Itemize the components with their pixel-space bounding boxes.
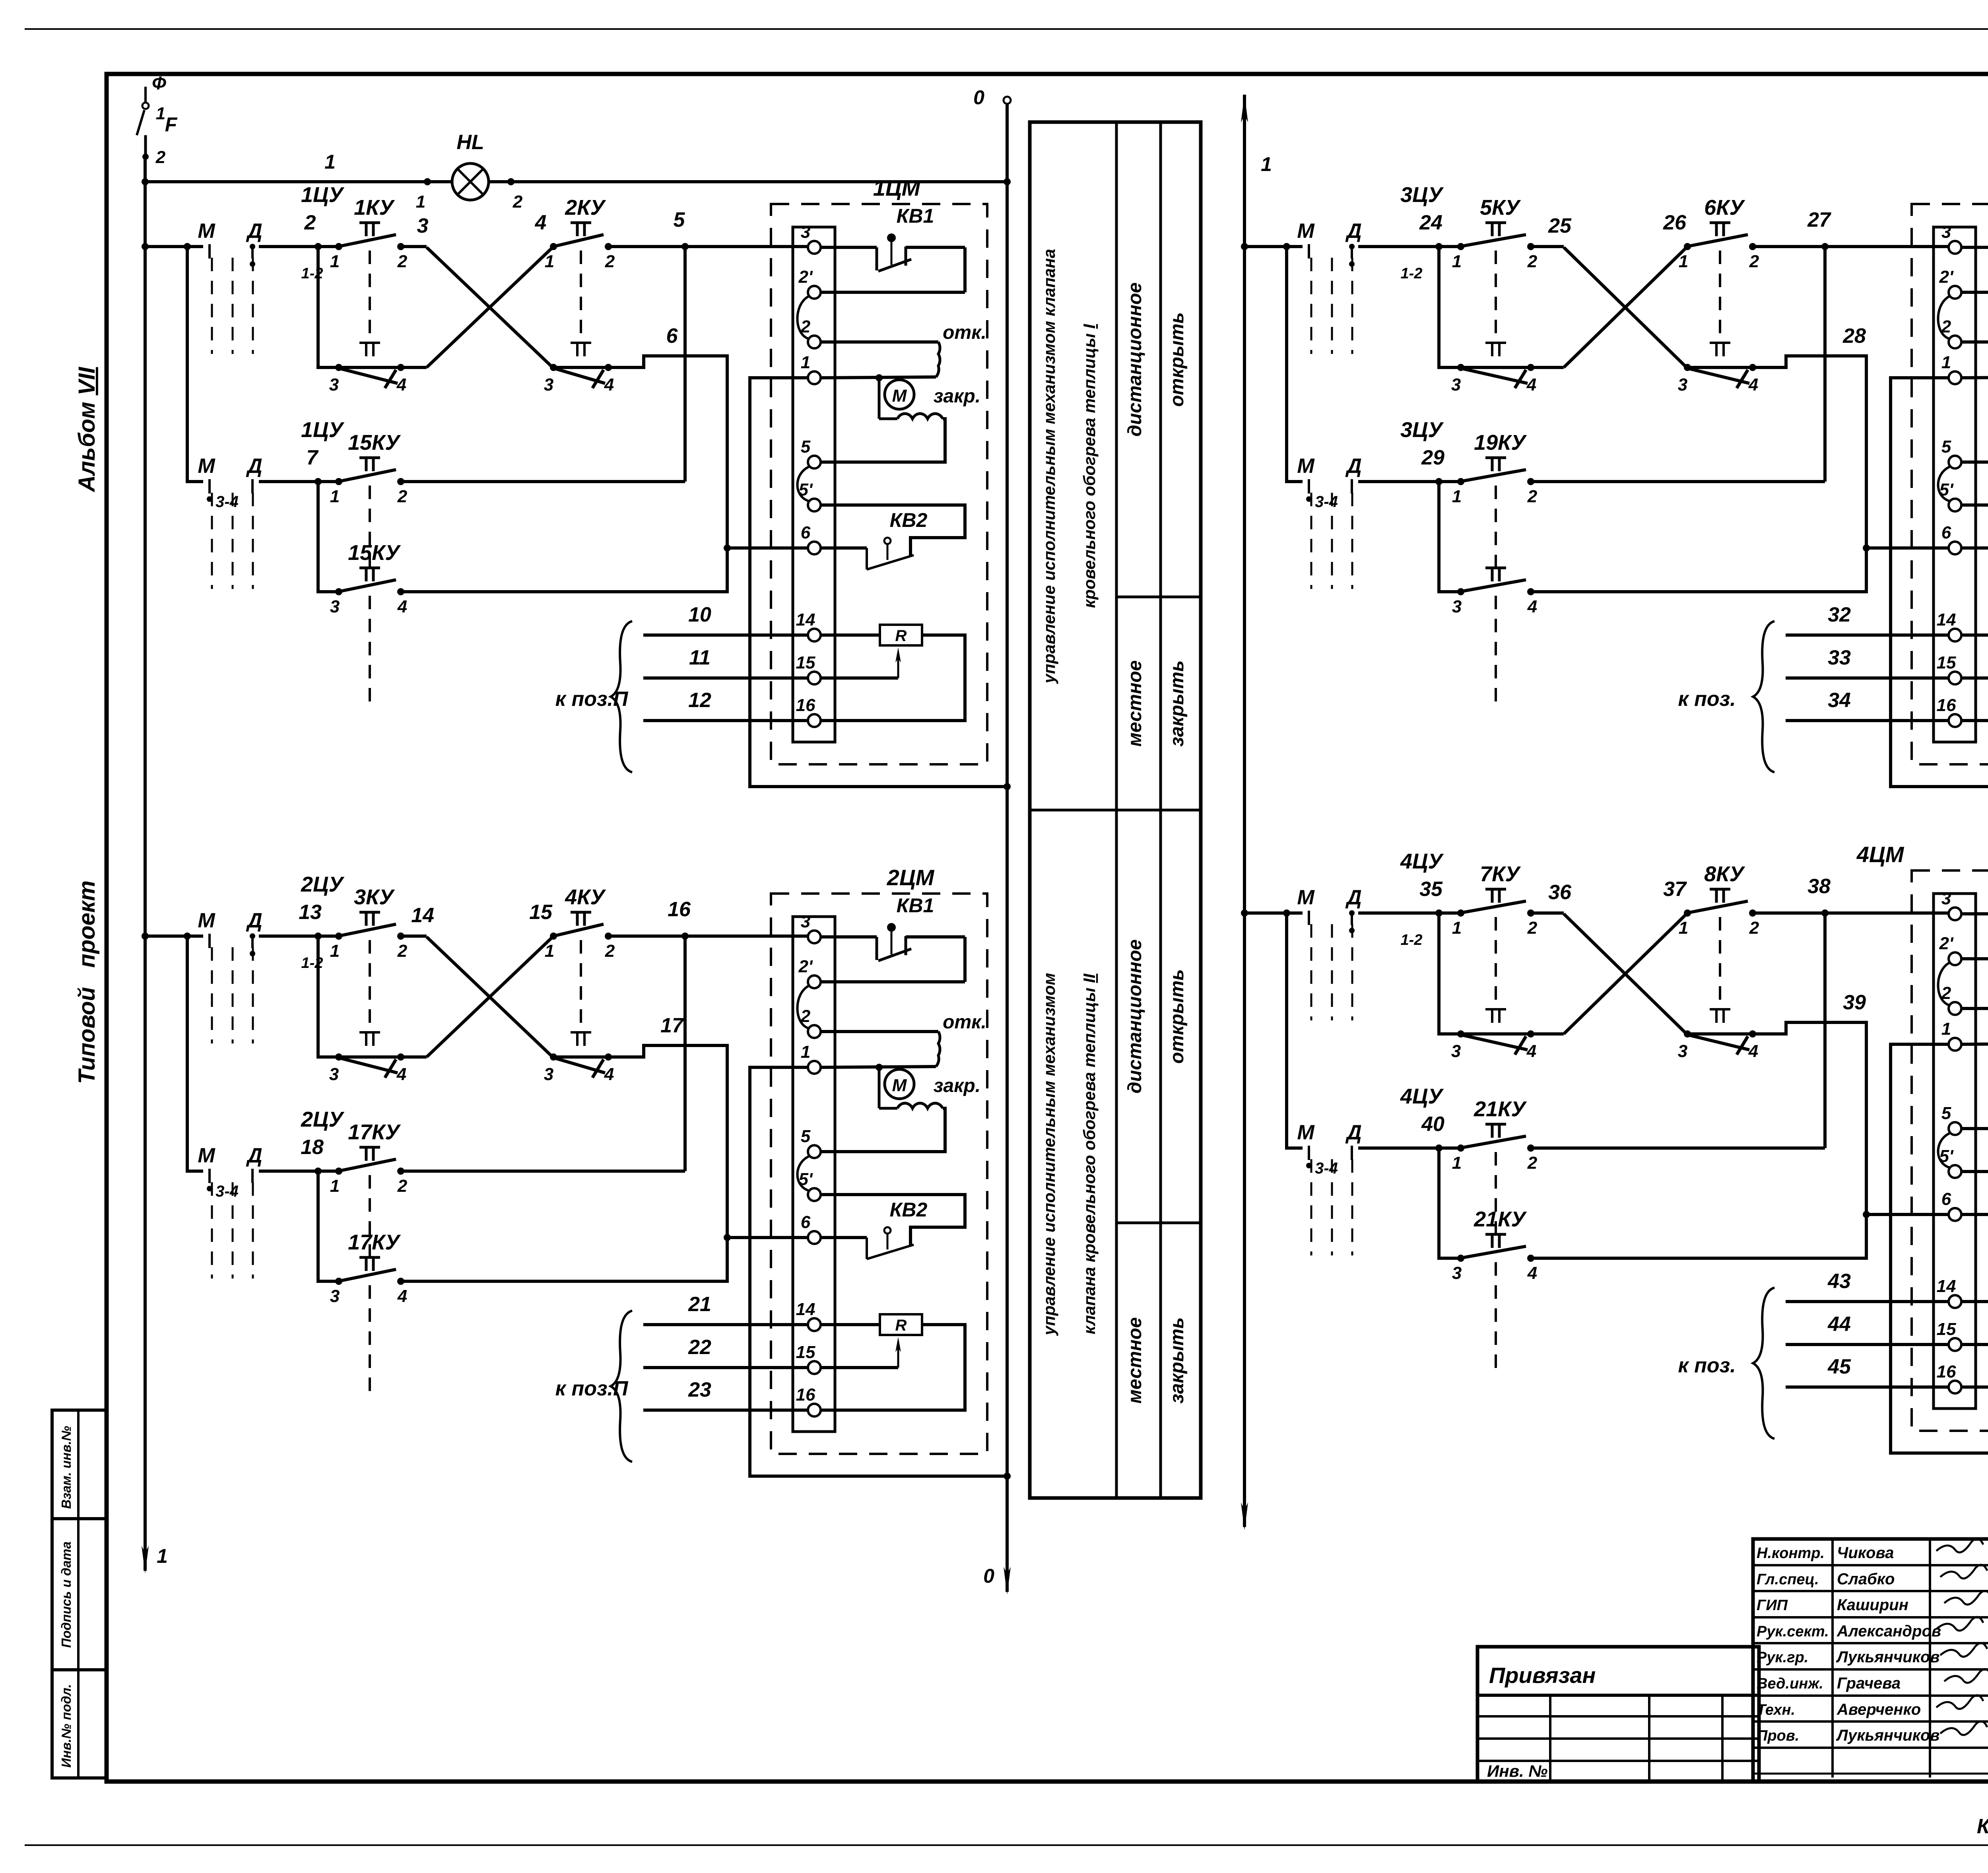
svg-text:2: 2 bbox=[397, 1176, 408, 1196]
wire row from bus to 2ЦМ terminal 3 bbox=[142, 898, 808, 940]
svg-text:Техн.: Техн. bbox=[1757, 1702, 1795, 1718]
svg-text:открыть: открыть bbox=[1167, 312, 1188, 407]
svg-text:открыть: открыть bbox=[1167, 969, 1188, 1064]
svg-text:М: М bbox=[892, 386, 907, 406]
svg-text:3: 3 bbox=[330, 1286, 340, 1306]
control switch contact KU lower bbox=[544, 343, 614, 394]
svg-text:26: 26 bbox=[1663, 211, 1687, 234]
control switch contact 6КУ upper bbox=[1679, 196, 1759, 341]
svg-text:HL: HL bbox=[456, 131, 484, 154]
wire from terminal 1 of 1ЦМ to neutral bus bbox=[750, 378, 1011, 790]
svg-text:к поз.: к поз. bbox=[1678, 688, 1736, 711]
terminal 16 of 1ЦМ bbox=[796, 696, 821, 727]
motor M of 2ЦМ bbox=[821, 1064, 980, 1108]
limit switch KB2 of 1ЦМ bbox=[821, 505, 965, 569]
terminal 16 of 4ЦМ bbox=[1937, 1362, 1961, 1393]
binding table bbox=[1477, 1647, 1759, 1782]
svg-text:0: 0 bbox=[983, 1565, 994, 1587]
control switch contact KU upper bbox=[1452, 568, 1537, 711]
control switch contact 1КУ upper bbox=[330, 196, 408, 341]
svg-text:7: 7 bbox=[307, 446, 319, 469]
svg-text:3: 3 bbox=[1678, 1041, 1687, 1061]
svg-text:КВ1: КВ1 bbox=[897, 205, 934, 227]
svg-text:3: 3 bbox=[1941, 222, 1951, 242]
svg-text:29: 29 bbox=[1421, 446, 1444, 469]
svg-text:1: 1 bbox=[157, 1545, 168, 1567]
svg-text:3: 3 bbox=[1451, 375, 1461, 394]
svg-text:3: 3 bbox=[329, 375, 339, 394]
svg-text:клапана кровельного обогрева т: клапана кровельного обогрева теплицы II bbox=[1080, 973, 1099, 1334]
svg-text:Д: Д bbox=[1345, 886, 1362, 909]
motor M of 4ЦМ bbox=[1961, 1041, 1988, 1085]
actuator unit box 4ЦМ bbox=[1856, 842, 1988, 1431]
control switch contact 21КУ upper bbox=[1452, 1097, 1538, 1234]
terminal 2' of 1ЦМ bbox=[798, 267, 821, 299]
limit switch KB2 of 4ЦМ bbox=[1961, 1172, 1988, 1236]
neutral bus of left half bbox=[973, 86, 1011, 1595]
crossover wires bbox=[1564, 914, 1687, 1034]
control switch contact KU lower bbox=[544, 1032, 614, 1084]
svg-text:4: 4 bbox=[1527, 1263, 1537, 1283]
svg-text:36: 36 bbox=[1548, 881, 1572, 904]
svg-text:Каширин: Каширин bbox=[1837, 1596, 1908, 1614]
svg-text:2: 2 bbox=[605, 941, 615, 961]
svg-text:Лукьянчиков: Лукьянчиков bbox=[1836, 1727, 1940, 1744]
svg-text:43: 43 bbox=[1827, 1270, 1851, 1293]
terminal 3 of 1ЦМ bbox=[801, 222, 821, 254]
wire from terminal 1 of 4ЦМ to neutral bus bbox=[1891, 1044, 1988, 1457]
svg-text:40: 40 bbox=[1421, 1113, 1444, 1136]
svg-text:4: 4 bbox=[604, 375, 614, 394]
terminal 1 of 3ЦМ bbox=[1941, 353, 1961, 384]
terminal 5 of 3ЦМ bbox=[1941, 437, 1961, 468]
wire row with contact 17КУ lower pair bbox=[318, 1171, 339, 1281]
svg-text:14: 14 bbox=[411, 904, 434, 927]
jumper 2'-2 of 4ЦМ bbox=[1938, 963, 1950, 1005]
jumper 5-5' of 4ЦМ bbox=[1938, 1133, 1950, 1168]
svg-text:М: М bbox=[1297, 1121, 1315, 1144]
archive annotations bbox=[1977, 1781, 1988, 1839]
svg-text:11: 11 bbox=[689, 646, 711, 669]
svg-text:2': 2' bbox=[798, 267, 813, 287]
svg-text:Рук.гр.: Рук.гр. bbox=[1757, 1649, 1808, 1666]
signature table entries bbox=[1757, 1539, 1988, 1744]
function table rotated captions bbox=[1040, 939, 1188, 1403]
terminal strip of 4ЦМ bbox=[1934, 894, 1976, 1409]
svg-text:32: 32 bbox=[1828, 603, 1851, 626]
svg-text:2': 2' bbox=[1939, 267, 1954, 287]
terminal 16 of 3ЦМ bbox=[1937, 696, 1961, 727]
wire 28 from lower contacts bbox=[1531, 324, 1949, 592]
wire row 40 with contact 21КУ bbox=[1287, 913, 1825, 1152]
motor M of 3ЦМ bbox=[1961, 374, 1988, 419]
terminal 5 of 2ЦМ bbox=[801, 1127, 821, 1158]
svg-text:18: 18 bbox=[301, 1136, 324, 1159]
left margin text Tipovoy proekt bbox=[74, 880, 100, 1084]
svg-text:16: 16 bbox=[1937, 1362, 1956, 1381]
svg-text:М: М bbox=[1297, 455, 1315, 478]
opening coil otk of 1ЦМ bbox=[821, 322, 986, 377]
svg-text:2: 2 bbox=[1749, 252, 1759, 271]
svg-text:5: 5 bbox=[801, 437, 811, 457]
control switch contact 5КУ upper bbox=[1452, 196, 1538, 341]
title block signature table bbox=[1753, 1539, 1988, 1782]
svg-text:2: 2 bbox=[513, 192, 523, 212]
terminal 6 of 1ЦМ bbox=[801, 523, 821, 554]
svg-text:Д: Д bbox=[1345, 455, 1362, 478]
jumper 2'-2 of 1ЦМ bbox=[798, 296, 809, 339]
terminal 2' of 2ЦМ bbox=[798, 957, 821, 988]
svg-text:3КУ: 3КУ bbox=[354, 885, 395, 909]
svg-text:2КУ: 2КУ bbox=[565, 196, 606, 220]
svg-text:12: 12 bbox=[688, 689, 711, 712]
svg-text:4: 4 bbox=[396, 1065, 406, 1084]
resistor R of 2ЦМ bbox=[821, 1314, 965, 1410]
svg-text:17КУ: 17КУ bbox=[348, 1230, 401, 1254]
wires to position controller bbox=[1678, 603, 1949, 772]
svg-text:3: 3 bbox=[801, 912, 810, 931]
left margin text Album VII bbox=[74, 366, 100, 493]
function table sub divider bbox=[1116, 1222, 1201, 1224]
svg-text:1-2: 1-2 bbox=[1401, 265, 1423, 282]
svg-text:22: 22 bbox=[688, 1336, 711, 1359]
svg-text:Александров: Александров bbox=[1837, 1622, 1941, 1640]
control switch contact 17КУ upper bbox=[330, 1120, 408, 1257]
wires to position controller bbox=[1678, 1270, 1949, 1439]
terminal 14 of 3ЦМ bbox=[1937, 610, 1961, 641]
wire row with contact 15КУ lower pair bbox=[318, 482, 339, 592]
svg-text:4: 4 bbox=[1526, 1041, 1536, 1061]
actuator unit box 1ЦМ bbox=[771, 175, 987, 764]
svg-text:4ЦМ: 4ЦМ bbox=[1856, 842, 1905, 867]
selector switch 4ЦУ bbox=[1297, 849, 1444, 1020]
svg-text:1: 1 bbox=[1452, 252, 1462, 271]
left margin stamp boxes bbox=[52, 1410, 107, 1778]
svg-text:1-2: 1-2 bbox=[301, 955, 323, 971]
svg-text:управление исполнительным меха: управление исполнительным механизмом bbox=[1040, 973, 1058, 1336]
svg-text:М: М bbox=[1297, 886, 1315, 909]
svg-text:3: 3 bbox=[417, 214, 429, 237]
svg-text:2: 2 bbox=[397, 941, 408, 961]
terminal 2 of 3ЦМ bbox=[1941, 317, 1961, 348]
svg-text:1: 1 bbox=[1452, 918, 1462, 938]
terminal strip of 2ЦМ bbox=[793, 917, 835, 1432]
svg-text:17КУ: 17КУ bbox=[348, 1120, 401, 1144]
wire row with contact KU lower pair bbox=[1439, 482, 1461, 592]
terminal 5 of 4ЦМ bbox=[1941, 1104, 1961, 1135]
terminal 6 of 4ЦМ bbox=[1941, 1189, 1961, 1221]
terminal 2 of 1ЦМ bbox=[800, 317, 821, 348]
svg-text:3-4: 3-4 bbox=[1315, 493, 1338, 511]
svg-text:местное: местное bbox=[1124, 1317, 1145, 1403]
svg-text:6КУ: 6КУ bbox=[1704, 196, 1745, 220]
svg-text:Инв.№ подл.: Инв.№ подл. bbox=[59, 1684, 74, 1768]
svg-text:21КУ: 21КУ bbox=[1474, 1097, 1527, 1121]
terminal 2' of 4ЦМ bbox=[1939, 934, 1961, 965]
terminal 5' of 1ЦМ bbox=[799, 480, 821, 511]
svg-text:1: 1 bbox=[330, 1176, 340, 1196]
svg-text:Типовой проект: Типовой проект bbox=[74, 880, 100, 1084]
svg-text:4: 4 bbox=[1527, 597, 1537, 616]
svg-text:15КУ: 15КУ bbox=[348, 541, 401, 565]
control switch contact 19КУ upper bbox=[1452, 431, 1538, 567]
svg-text:2: 2 bbox=[304, 211, 316, 234]
selector switch 2ЦУ bbox=[198, 872, 344, 1043]
svg-text:2: 2 bbox=[1527, 487, 1538, 506]
svg-text:1: 1 bbox=[330, 487, 340, 506]
svg-text:4: 4 bbox=[1748, 375, 1758, 394]
control switch contact 4КУ upper bbox=[545, 885, 615, 1031]
svg-text:3: 3 bbox=[801, 222, 810, 242]
svg-text:1-2: 1-2 bbox=[301, 265, 323, 282]
svg-text:дистанционное: дистанционное bbox=[1124, 282, 1145, 437]
svg-text:0: 0 bbox=[973, 86, 984, 109]
svg-text:3-4: 3-4 bbox=[215, 1183, 239, 1200]
wire row 7 with contact 15КУ bbox=[187, 247, 685, 485]
svg-text:6: 6 bbox=[1941, 1189, 1951, 1209]
selector switch 4ЦУ bbox=[1297, 1084, 1444, 1255]
wire row with contact 21КУ lower pair bbox=[1439, 1148, 1461, 1258]
svg-text:25: 25 bbox=[1548, 214, 1572, 237]
svg-text:3: 3 bbox=[329, 1065, 339, 1084]
svg-text:М: М bbox=[198, 909, 215, 932]
svg-text:2: 2 bbox=[605, 252, 615, 271]
control switch contact 15КУ upper bbox=[330, 541, 407, 711]
terminal 2' of 3ЦМ bbox=[1939, 267, 1961, 299]
svg-text:16: 16 bbox=[1937, 696, 1956, 715]
selector switch 1ЦУ bbox=[198, 418, 344, 589]
jumper 5-5' of 1ЦМ bbox=[798, 467, 809, 501]
wire 17 from lower contacts bbox=[401, 1014, 808, 1281]
svg-text:2ЦУ: 2ЦУ bbox=[301, 872, 344, 896]
svg-text:3: 3 bbox=[1941, 889, 1951, 908]
svg-text:5: 5 bbox=[1941, 437, 1951, 457]
svg-text:Д: Д bbox=[246, 1144, 262, 1167]
svg-text:14: 14 bbox=[796, 1300, 815, 1319]
svg-text:Д: Д bbox=[246, 909, 262, 932]
terminal strip of 3ЦМ bbox=[1934, 227, 1976, 742]
svg-text:24: 24 bbox=[1419, 211, 1442, 234]
function table sub divider bbox=[1116, 596, 1201, 598]
svg-text:Пров.: Пров. bbox=[1757, 1727, 1799, 1744]
svg-text:5: 5 bbox=[674, 208, 685, 231]
terminal 15 of 4ЦМ bbox=[1937, 1319, 1961, 1351]
svg-text:Альбом VII: Альбом VII bbox=[74, 366, 100, 493]
crossover wires bbox=[1564, 247, 1687, 367]
control switch contact KU lower bbox=[329, 343, 406, 394]
svg-text:5: 5 bbox=[801, 1127, 811, 1146]
svg-text:16: 16 bbox=[668, 898, 691, 921]
terminal 14 of 1ЦМ bbox=[796, 610, 821, 641]
svg-text:34: 34 bbox=[1828, 689, 1851, 712]
terminal 5' of 3ЦМ bbox=[1939, 480, 1961, 511]
svg-text:2: 2 bbox=[155, 148, 166, 167]
svg-text:4ЦУ: 4ЦУ bbox=[1400, 849, 1444, 873]
svg-text:15КУ: 15КУ bbox=[348, 431, 401, 455]
svg-text:F: F bbox=[165, 113, 178, 136]
svg-text:1: 1 bbox=[156, 104, 165, 123]
svg-text:2': 2' bbox=[798, 957, 813, 976]
svg-text:Н.контр.: Н.контр. bbox=[1757, 1545, 1825, 1562]
function table frame bbox=[1030, 122, 1201, 1498]
svg-text:3-4: 3-4 bbox=[215, 493, 239, 511]
svg-text:15: 15 bbox=[1937, 1319, 1956, 1339]
svg-text:Д: Д bbox=[1345, 1121, 1362, 1144]
svg-text:14: 14 bbox=[1937, 610, 1956, 630]
lower contact row wire bbox=[1439, 247, 1753, 367]
svg-text:4ЦУ: 4ЦУ bbox=[1400, 1084, 1444, 1108]
phase bus of left half bbox=[142, 157, 168, 1574]
terminal 14 of 2ЦМ bbox=[796, 1300, 821, 1331]
svg-text:23: 23 bbox=[688, 1378, 711, 1401]
terminal 1 of 1ЦМ bbox=[801, 353, 821, 384]
control switch contact 15КУ upper bbox=[330, 431, 408, 567]
svg-text:39: 39 bbox=[1843, 991, 1866, 1014]
svg-text:Лукьянчиков: Лукьянчиков bbox=[1836, 1648, 1940, 1666]
svg-text:Д: Д bbox=[1345, 220, 1362, 243]
control switch contact 7КУ upper bbox=[1452, 862, 1538, 1008]
svg-text:отк.: отк. bbox=[943, 322, 986, 343]
svg-text:отк.: отк. bbox=[943, 1012, 986, 1033]
terminal 3 of 3ЦМ bbox=[1941, 222, 1961, 254]
svg-text:кровельного обогрева теплицы I: кровельного обогрева теплицы I bbox=[1080, 324, 1099, 608]
wire row 18 with contact 17КУ bbox=[187, 936, 685, 1175]
svg-text:2: 2 bbox=[1527, 918, 1538, 938]
limit switch KB1 of 4ЦМ bbox=[1961, 871, 1988, 959]
wire 6 from lower contacts bbox=[401, 324, 808, 592]
svg-text:16: 16 bbox=[796, 696, 815, 715]
svg-text:2: 2 bbox=[397, 487, 408, 506]
lamp circuit wire 1 bbox=[145, 151, 1007, 212]
wire row from bus to 1ЦМ terminal 3 bbox=[142, 208, 808, 250]
svg-text:3-4: 3-4 bbox=[1315, 1160, 1338, 1177]
svg-text:4: 4 bbox=[1526, 375, 1536, 394]
svg-text:44: 44 bbox=[1827, 1313, 1851, 1336]
terminal 6 of 2ЦМ bbox=[801, 1212, 821, 1244]
svg-text:2ЦМ: 2ЦМ bbox=[887, 865, 935, 890]
svg-text:Грачева: Грачева bbox=[1837, 1675, 1901, 1692]
svg-text:Копировал Варич: Копировал Варич bbox=[1977, 1815, 1988, 1838]
svg-text:1ЦУ: 1ЦУ bbox=[301, 183, 344, 207]
svg-text:дистанционное: дистанционное bbox=[1124, 939, 1145, 1094]
svg-text:1: 1 bbox=[801, 1042, 810, 1062]
svg-text:М: М bbox=[198, 220, 215, 243]
svg-text:21КУ: 21КУ bbox=[1474, 1207, 1527, 1231]
closing coil zakr of 2ЦМ bbox=[821, 1103, 945, 1152]
svg-text:15: 15 bbox=[529, 901, 553, 924]
control switch contact 2КУ upper bbox=[545, 196, 615, 341]
svg-text:Д: Д bbox=[246, 455, 262, 478]
svg-text:16: 16 bbox=[796, 1385, 815, 1405]
svg-text:Д: Д bbox=[246, 220, 262, 243]
svg-text:1: 1 bbox=[330, 941, 340, 961]
lower contact row wire bbox=[1439, 913, 1753, 1034]
svg-text:КВ2: КВ2 bbox=[890, 509, 928, 531]
wire from terminal 1 of 2ЦМ to neutral bus bbox=[750, 1067, 1011, 1480]
svg-text:4: 4 bbox=[604, 1065, 614, 1084]
lower contact row wire bbox=[318, 247, 608, 367]
wire row 29 with contact 19КУ bbox=[1287, 247, 1825, 485]
svg-text:6: 6 bbox=[801, 523, 811, 542]
actuator unit box 2ЦМ bbox=[771, 865, 987, 1454]
limit switch KB1 of 1ЦМ bbox=[821, 205, 965, 292]
signal lamp HL bbox=[452, 131, 489, 200]
svg-text:3ЦУ: 3ЦУ bbox=[1400, 418, 1444, 442]
svg-text:1: 1 bbox=[1941, 353, 1951, 372]
wire from terminal 1 of 3ЦМ to neutral bus bbox=[1891, 378, 1988, 790]
svg-text:27: 27 bbox=[1807, 208, 1831, 231]
svg-text:1: 1 bbox=[1452, 1153, 1462, 1173]
svg-text:17: 17 bbox=[660, 1014, 684, 1037]
svg-text:к поз.П: к поз.П bbox=[555, 1377, 629, 1400]
svg-text:2ЦУ: 2ЦУ bbox=[301, 1107, 344, 1131]
svg-text:М: М bbox=[198, 1144, 215, 1167]
control switch contact KU lower bbox=[1451, 343, 1536, 394]
svg-text:14: 14 bbox=[796, 610, 815, 630]
jumper 2'-2 of 3ЦМ bbox=[1938, 296, 1950, 339]
svg-text:Рук.сект.: Рук.сект. bbox=[1757, 1623, 1829, 1640]
jumper 5-5' of 2ЦМ bbox=[798, 1156, 809, 1191]
svg-text:1: 1 bbox=[1941, 1019, 1951, 1039]
svg-text:19КУ: 19КУ bbox=[1474, 431, 1527, 455]
wire row from bus to 3ЦМ terminal 3 bbox=[1241, 208, 1949, 250]
svg-text:33: 33 bbox=[1828, 646, 1851, 669]
svg-text:к поз.: к поз. bbox=[1678, 1354, 1736, 1377]
function table rotated captions bbox=[1040, 249, 1188, 747]
svg-text:1-2: 1-2 bbox=[1401, 932, 1423, 948]
svg-text:21: 21 bbox=[688, 1293, 711, 1316]
svg-text:4: 4 bbox=[1748, 1041, 1758, 1061]
terminal strip of 1ЦМ bbox=[793, 227, 835, 742]
svg-text:3: 3 bbox=[1452, 1263, 1462, 1283]
svg-text:3: 3 bbox=[1678, 375, 1687, 394]
svg-text:М: М bbox=[1297, 220, 1315, 243]
svg-text:1КУ: 1КУ bbox=[354, 196, 395, 220]
terminal 5' of 4ЦМ bbox=[1939, 1146, 1961, 1178]
svg-text:закрыть: закрыть bbox=[1167, 1317, 1188, 1403]
svg-text:Слабко: Слабко bbox=[1837, 1570, 1895, 1588]
svg-text:ГИП: ГИП bbox=[1757, 1597, 1788, 1614]
terminal 3 of 2ЦМ bbox=[801, 912, 821, 943]
control switch contact 21КУ upper bbox=[1452, 1207, 1537, 1378]
svg-text:к поз.П: к поз.П bbox=[555, 688, 629, 711]
svg-text:8КУ: 8КУ bbox=[1704, 862, 1745, 886]
svg-text:37: 37 bbox=[1663, 878, 1687, 901]
svg-text:28: 28 bbox=[1842, 324, 1866, 348]
terminal 1 of 4ЦМ bbox=[1941, 1019, 1961, 1051]
terminal 3 of 4ЦМ bbox=[1941, 889, 1961, 920]
actuator unit box 3ЦМ bbox=[1912, 175, 1988, 764]
lower contact row wire bbox=[318, 936, 608, 1057]
terminal 15 of 3ЦМ bbox=[1937, 653, 1961, 684]
limit switch KB2 of 2ЦМ bbox=[821, 1195, 965, 1259]
terminal 15 of 1ЦМ bbox=[796, 653, 821, 684]
svg-text:1: 1 bbox=[1261, 153, 1272, 175]
svg-text:1ЦМ: 1ЦМ bbox=[873, 175, 921, 200]
svg-text:35: 35 bbox=[1419, 878, 1443, 901]
svg-text:Подпись и дата: Подпись и дата bbox=[59, 1541, 74, 1648]
svg-text:6: 6 bbox=[666, 324, 678, 348]
opening coil otk of 2ЦМ bbox=[821, 1012, 986, 1067]
svg-text:Ф: Ф bbox=[152, 73, 166, 93]
svg-text:М: М bbox=[198, 455, 215, 478]
svg-text:10: 10 bbox=[688, 603, 711, 626]
svg-text:2: 2 bbox=[1749, 918, 1759, 938]
control switch contact 17КУ upper bbox=[330, 1230, 407, 1401]
svg-text:1: 1 bbox=[324, 151, 336, 173]
wire row from bus to 4ЦМ terminal 3 bbox=[1241, 875, 1949, 917]
svg-text:закрыть: закрыть bbox=[1167, 660, 1188, 746]
